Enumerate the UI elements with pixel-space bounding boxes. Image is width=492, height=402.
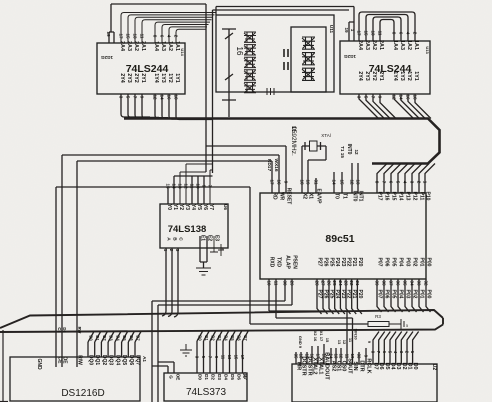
link bars between encoder and sensor — [284, 49, 288, 70]
wire uart data slants to bus — [373, 332, 379, 365]
svg-text:2A4: 2A4 — [357, 40, 363, 50]
svg-text:1A4: 1A4 — [392, 40, 398, 50]
socket U4 DS1216D body — [10, 357, 140, 401]
wire decoder input stubs — [168, 176, 213, 204]
svg-text:RW: RW — [77, 327, 82, 334]
svg-text:3: 3 — [410, 181, 415, 184]
svg-text:D7: D7 — [243, 374, 248, 380]
svg-text:P16: P16 — [384, 192, 390, 201]
svg-text:11: 11 — [345, 354, 350, 359]
svg-text:SIN10: SIN10 — [354, 328, 359, 340]
svg-text:P02: P02 — [412, 258, 418, 267]
wire P0 port drops into bus — [377, 279, 382, 312]
label INT0 INT1 rotated — [340, 144, 359, 159]
DS1216D data wire labels — [89, 335, 141, 341]
wire crystal left lead to X2 — [302, 142, 310, 193]
wire P1 slant drops from right bus — [377, 164, 387, 194]
wire uart control stubs — [296, 344, 366, 364]
svg-text:D1: D1 — [95, 335, 100, 341]
svg-text:P21: P21 — [351, 258, 357, 267]
svg-text:16: 16 — [277, 179, 282, 185]
svg-text:P03: P03 — [405, 258, 411, 267]
svg-text:2Y3: 2Y3 — [364, 71, 370, 81]
wire DS1216D data drops — [87, 342, 89, 357]
svg-text:1A3: 1A3 — [160, 41, 166, 51]
latch U5 74LS373 body — [164, 372, 247, 401]
svg-text:R3: R3 — [375, 314, 381, 319]
svg-text:P25: P25 — [329, 258, 335, 267]
svg-text:P26: P26 — [323, 258, 329, 267]
svg-text:Y2: Y2 — [178, 204, 184, 210]
bus right end cap — [442, 318, 444, 325]
svg-text:R/W: R/W — [77, 355, 83, 365]
svg-text:1A1: 1A1 — [174, 41, 180, 51]
svg-text:D3: D3 — [217, 374, 222, 380]
svg-text:13: 13 — [178, 183, 183, 189]
svg-text:74LS138: 74LS138 — [168, 224, 207, 235]
svg-text:P07: P07 — [377, 258, 383, 267]
wire EA pin stub — [315, 178, 317, 193]
wire ALE to latch — [152, 279, 285, 402]
svg-text:D2: D2 — [211, 335, 216, 341]
wire RXD to SOUT — [269, 279, 347, 364]
svg-text:RESET: RESET — [286, 188, 292, 205]
U14 pin numbers bottom — [119, 94, 179, 100]
svg-text:1: 1 — [163, 249, 168, 252]
bus thick data channel from buffers around right side — [124, 119, 440, 164]
mcu top pin numbers — [270, 179, 428, 185]
mcu port wire labels row2 — [317, 290, 432, 299]
buffer U13 74LS244 body — [340, 40, 430, 94]
svg-text:D1: D1 — [204, 335, 209, 341]
svg-text:C: C — [178, 237, 184, 241]
labels on CE OE RW wires — [57, 327, 82, 334]
mcu top pin labels — [272, 188, 431, 205]
svg-text:XTAl: XTAl — [321, 133, 330, 138]
U13 pin numbers bottom — [357, 94, 418, 100]
bus hatch to latch data pins — [197, 331, 203, 342]
svg-text:2Y1: 2Y1 — [378, 71, 384, 81]
svg-text:12: 12 — [342, 340, 347, 345]
svg-text:SOUT: SOUT — [347, 358, 353, 374]
svg-text:74LS373: 74LS373 — [186, 387, 226, 398]
svg-text:2Y4: 2Y4 — [119, 73, 125, 83]
74LS373 pin labels — [169, 374, 249, 381]
uart U2 body — [292, 364, 437, 402]
buffer U14 74LS244 body — [97, 41, 185, 94]
svg-text:P12: P12 — [412, 192, 418, 201]
wire net RD from left riser x77 — [77, 161, 272, 367]
svg-text:SIN: SIN — [352, 361, 358, 370]
svg-text:X2: X2 — [302, 193, 308, 199]
block sensor box — [291, 27, 326, 92]
svg-text:RD17: RD17 — [266, 159, 272, 172]
svg-text:D2: D2 — [102, 335, 107, 341]
wire U6 select inputs down to main bus — [162, 248, 166, 316]
svg-text:ALAP: ALAP — [285, 255, 291, 269]
svg-text:15: 15 — [325, 338, 330, 343]
svg-text:2A2: 2A2 — [371, 40, 377, 50]
wire crystal right lead loop to X1 — [308, 142, 326, 193]
svg-text:1A2: 1A2 — [406, 40, 412, 50]
svg-text:D1: D1 — [204, 374, 209, 380]
svg-text:D5: D5 — [230, 374, 235, 380]
svg-text:PSEN: PSEN — [292, 255, 298, 269]
svg-text:7: 7 — [382, 181, 387, 184]
U6 bottom pin labels A B C — [166, 235, 220, 241]
svg-text:2: 2 — [417, 181, 422, 184]
svg-text:1A4: 1A4 — [153, 41, 159, 51]
mcu U1 89c51 body — [260, 193, 426, 279]
svg-text:A1: A1 — [142, 356, 147, 362]
wire U13 output fan slanting into right bus — [359, 94, 379, 119]
svg-text:1Y3: 1Y3 — [399, 71, 405, 81]
svg-text:P15: P15 — [391, 192, 397, 201]
svg-text:A: A — [166, 237, 172, 241]
svg-text:89c51: 89c51 — [325, 233, 354, 245]
label RD17 WR16 rotated — [266, 158, 279, 171]
svg-text:Y7: Y7 — [208, 204, 214, 210]
bus main channel top line — [0, 310, 443, 328]
svg-text:1G: 1G — [350, 54, 357, 59]
svg-text:U6: U6 — [223, 204, 228, 210]
svg-text:U11: U11 — [329, 25, 334, 34]
svg-text:8: 8 — [375, 181, 380, 184]
svg-text:12: 12 — [354, 149, 359, 155]
svg-text:13: 13 — [227, 355, 232, 360]
svg-text:1G: 1G — [107, 55, 114, 60]
svg-text:13: 13 — [337, 340, 342, 345]
svg-text:P01: P01 — [419, 258, 425, 267]
svg-text:10: 10 — [196, 183, 201, 189]
svg-text:2A2: 2A2 — [133, 41, 139, 51]
svg-text:X2 16: X2 16 — [313, 331, 318, 342]
svg-text:D7: D7 — [136, 335, 141, 341]
svg-text:7: 7 — [208, 185, 213, 188]
svg-text:RD: RD — [272, 192, 278, 200]
label chuan-gan-qi (sensor) vertical glyph column — [302, 37, 315, 80]
svg-text:1A2: 1A2 — [167, 41, 173, 51]
svg-text:D2: D2 — [211, 374, 216, 380]
svg-text:X1 17: X1 17 — [319, 331, 324, 342]
svg-text:2G: 2G — [101, 55, 108, 60]
svg-text:P22: P22 — [346, 258, 352, 267]
svg-text:17: 17 — [270, 179, 275, 185]
svg-text:RXD: RXD — [269, 257, 275, 268]
wire U13 input arcs — [359, 12, 415, 41]
svg-text:D7: D7 — [243, 335, 248, 341]
left border line — [2, 330, 4, 402]
svg-text:2A1: 2A1 — [378, 40, 384, 50]
wire net WR from left riser x62 — [62, 155, 279, 367]
label shu-ju-bian-ma-qi (data encoder) vertical glyph column — [244, 32, 256, 93]
svg-text:2Y2: 2Y2 — [133, 73, 139, 83]
svg-text:D0: D0 — [89, 335, 94, 341]
svg-text:D6: D6 — [62, 327, 67, 333]
svg-text:P13: P13 — [405, 192, 411, 201]
svg-text:GND: GND — [36, 358, 42, 370]
svg-text:D4: D4 — [224, 374, 229, 380]
svg-text:11: 11 — [221, 355, 226, 360]
svg-text:D3: D3 — [109, 335, 114, 341]
svg-text:P04: P04 — [398, 258, 404, 267]
svg-text:1A3: 1A3 — [399, 40, 405, 50]
svg-text:1Y3: 1Y3 — [160, 73, 166, 83]
latch data wire labels — [195, 335, 249, 360]
svg-text:D3: D3 — [217, 335, 222, 341]
svg-text:OE: OE — [62, 356, 68, 364]
svg-text:1Y1: 1Y1 — [413, 71, 419, 81]
svg-text:T0: T0 — [334, 193, 340, 199]
svg-text:B: B — [172, 237, 178, 241]
wire U14 output fan to middle bus — [121, 94, 150, 117]
svg-text:D4: D4 — [224, 335, 229, 341]
bus hatch to DS1216D data pins — [88, 332, 94, 343]
svg-text:Y0: Y0 — [166, 204, 172, 210]
svg-text:D5: D5 — [122, 335, 127, 341]
bus-16 hash marks — [225, 33, 233, 80]
svg-text:2Y2: 2Y2 — [371, 71, 377, 81]
wire T0 T1 stubs — [334, 172, 342, 193]
wire latch LE OE controls — [152, 362, 174, 373]
svg-text:2A4: 2A4 — [119, 41, 125, 51]
uart pin numbers above — [294, 351, 416, 359]
svg-text:Y4: Y4 — [190, 204, 196, 210]
wire vertical net x=206 — [205, 4, 207, 172]
svg-text:D5: D5 — [230, 335, 235, 341]
wire top net line C — [216, 7, 354, 23]
svg-text:6: 6 — [389, 181, 394, 184]
svg-text:2A3: 2A3 — [126, 41, 132, 51]
U13 pin numbers top — [344, 27, 418, 36]
wire P2 port drops into bus — [317, 279, 322, 314]
svg-text:P10: P10 — [425, 192, 431, 201]
svg-text:T1: T1 — [342, 193, 348, 199]
decoder U6 74LS138 body — [160, 204, 228, 248]
svg-text:C5: C5 — [57, 327, 62, 333]
svg-text:3: 3 — [175, 249, 180, 252]
bus-16 line inside encoder — [222, 29, 236, 117]
svg-text:P17: P17 — [377, 192, 383, 201]
svg-text:16: 16 — [235, 47, 244, 56]
svg-text:P27: P27 — [317, 258, 323, 267]
svg-text:19: 19 — [344, 27, 349, 33]
svg-text:2: 2 — [169, 249, 174, 252]
uart pin labels — [296, 352, 419, 380]
svg-text:GND 9: GND 9 — [298, 336, 303, 349]
svg-text:2Y3: 2Y3 — [126, 73, 132, 83]
wire INT stubs — [352, 163, 358, 193]
wire TXD to SIN — [276, 279, 353, 364]
svg-text:DS1216D: DS1216D — [61, 388, 104, 399]
svg-text:11: 11 — [190, 184, 195, 189]
mcu bottom pin numbers — [267, 280, 429, 286]
wire R3 left lead — [250, 323, 368, 325]
svg-text:Y3: Y3 — [184, 204, 190, 210]
svg-text:1Y4: 1Y4 — [392, 71, 398, 81]
svg-text:2Y1: 2Y1 — [140, 73, 146, 83]
svg-text:P20: P20 — [357, 258, 363, 267]
wire U13 enable pins from top nets — [349, 22, 354, 41]
svg-text:2Y4: 2Y4 — [357, 71, 363, 81]
svg-text:X1: X1 — [308, 193, 314, 199]
wire reset net from vertical x206 — [206, 146, 286, 193]
wire R3 right lead with +5 tick — [389, 319, 404, 329]
wire latch data drops — [196, 341, 198, 373]
crystal Y1 body — [310, 141, 318, 151]
svg-text:1Y2: 1Y2 — [167, 73, 173, 83]
pullup tick +5 at U6 E3 — [210, 236, 224, 256]
svg-text:U2: U2 — [431, 364, 437, 371]
svg-text:D0: D0 — [198, 374, 203, 380]
svg-text:5: 5 — [396, 181, 401, 184]
svg-text:2A1: 2A1 — [140, 41, 146, 51]
svg-text:15: 15 — [234, 355, 239, 360]
svg-text:D6: D6 — [129, 335, 134, 341]
svg-text:T1 15: T1 15 — [340, 146, 345, 158]
block data-encoder outer box — [216, 15, 334, 92]
svg-text:17: 17 — [240, 355, 245, 360]
svg-text:5: 5 — [406, 324, 408, 328]
U14 pin numbers top — [106, 31, 179, 39]
svg-text:P14: P14 — [398, 192, 404, 201]
svg-text:4: 4 — [403, 181, 408, 184]
wire PSEN down-left — [158, 279, 292, 402]
wire decoder staircase from net x212 — [180, 164, 213, 204]
DS1216D pin labels — [57, 355, 148, 366]
wire top net line A — [111, 3, 206, 5]
svg-text:D4: D4 — [115, 335, 120, 341]
ground symbol near latch — [180, 344, 192, 356]
svg-text:U13: U13 — [425, 46, 430, 54]
wire net from left riser x56 to pullup column — [56, 187, 250, 367]
svg-text:P00: P00 — [426, 258, 432, 267]
encoder box bottom pin ticks — [267, 88, 274, 95]
svg-text:WX16: WX16 — [273, 158, 279, 171]
wire U14 enable pins to top net — [109, 4, 114, 43]
svg-text:1Y4: 1Y4 — [153, 73, 159, 83]
svg-text:9: 9 — [284, 181, 289, 184]
svg-text:P11: P11 — [419, 192, 425, 201]
bus main channel bottom line — [0, 325, 443, 333]
svg-text:D6: D6 — [237, 374, 242, 380]
ground symbol U6 enables — [196, 268, 211, 278]
svg-text:P24: P24 — [334, 258, 340, 267]
svg-text:INT0: INT0 — [346, 144, 352, 155]
svg-text:D6: D6 — [237, 335, 242, 341]
svg-text:TXD: TXD — [276, 257, 282, 267]
svg-text:1: 1 — [423, 181, 428, 184]
svg-text:Y5: Y5 — [196, 204, 202, 210]
wire U6 enable pins to ground — [200, 236, 207, 268]
svg-text:9: 9 — [202, 185, 207, 188]
U6 pin numbers top — [166, 183, 213, 189]
svg-text:10: 10 — [350, 354, 355, 359]
svg-text:Y1: Y1 — [172, 204, 178, 210]
svg-text:1A1: 1A1 — [413, 40, 419, 50]
svg-text:14: 14 — [172, 183, 177, 189]
svg-text:Y6: Y6 — [202, 204, 208, 210]
svg-text:12: 12 — [184, 183, 189, 189]
svg-text:P05: P05 — [391, 258, 397, 267]
svg-text:1k: 1k — [220, 247, 224, 251]
bottom frame tick — [0, 401, 8, 402]
svg-text:1Y1: 1Y1 — [174, 73, 180, 83]
svg-text:P23: P23 — [340, 258, 346, 267]
wire U14 input fan to top bus — [121, 13, 216, 44]
resistor R3 — [368, 322, 389, 327]
svg-text:15: 15 — [166, 183, 171, 189]
svg-text:WR: WR — [279, 192, 285, 201]
svg-text:1Y2: 1Y2 — [406, 71, 412, 81]
svg-text:2G: 2G — [344, 54, 351, 59]
wire top net line B — [213, 10, 350, 173]
U6 select wire labels — [163, 249, 180, 252]
svg-text:D0: D0 — [198, 335, 203, 341]
svg-text:OE: OE — [176, 374, 181, 381]
mcu bottom pin labels row1 — [269, 255, 432, 269]
svg-text:G: G — [169, 375, 174, 379]
svg-text:2A3: 2A3 — [364, 40, 370, 50]
svg-text:0592MHz.: 0592MHz. — [290, 126, 297, 156]
svg-text:P06: P06 — [384, 258, 390, 267]
